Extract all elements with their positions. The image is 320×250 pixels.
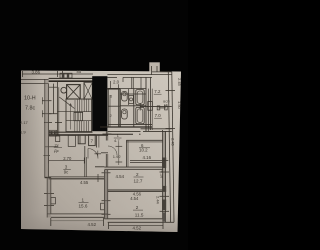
chute circle (61, 87, 67, 93)
stair mid landing lines (58, 111, 92, 113)
east rooms wall (double) (162, 130, 164, 219)
kitchen bottom wall / room1 top (49, 176, 105, 178)
door box on that wall (148, 102, 153, 111)
closet west wall (125, 140, 127, 167)
barbell symbol (159, 107, 167, 109)
bottom exterior wall right part (double) (104, 218, 163, 220)
kitchen east wall (84, 146, 86, 177)
entrance canopy box (60, 73, 72, 78)
lobby door boxes (56, 136, 60, 142)
corridor wall y146 (45, 146, 58, 148)
wc fixtures (122, 91, 128, 101)
svg-text:10-Н: 10-Н (24, 96, 36, 102)
hall north wall (107, 131, 140, 133)
stair middle hatched box (74, 112, 83, 120)
photo background (0, 0, 188, 250)
door arc apt2 hall (108, 146, 117, 155)
svg-text:1.92: 1.92 (113, 154, 122, 159)
stair diagonal cut (59, 97, 74, 109)
wall below 10.2 room (130, 159, 168, 161)
bottom dim line right (109, 225, 164, 227)
svg-text:7.2: 7.2 (154, 89, 161, 94)
crosses on east wall (160, 171, 170, 173)
stair treads lower flight (74, 121, 76, 132)
top wall right of shaft (double) (107, 74, 152, 76)
svg-text:1: 1 (82, 198, 85, 203)
wall between closet and room 12.7 (104, 166, 162, 168)
svg-text:4.52: 4.52 (88, 222, 97, 227)
crosses on shared wall (102, 200, 111, 202)
left exterior wall upper (double) (44, 79, 46, 177)
stair treads upper flight (74, 100, 76, 112)
electrical panel box (89, 135, 96, 146)
hallway top texts area small wall (108, 88, 147, 90)
lobby east wall (96, 135, 98, 148)
svg-text:1.9: 1.9 (20, 130, 26, 135)
svg-text:2.45: 2.45 (171, 138, 176, 147)
svg-text:КЛ: КЛ (164, 103, 168, 107)
top dimension line (22, 73, 93, 75)
svg-text:4.52: 4.52 (133, 226, 142, 231)
top-right notch (151, 66, 153, 75)
wall poche fills (104, 170, 107, 219)
stair direction line (70, 104, 72, 130)
vertical dim line at closet (118, 142, 120, 165)
svg-text:2.70: 2.70 (63, 156, 72, 161)
svg-text:4.54: 4.54 (116, 174, 125, 179)
wall tick crosses left wall (42, 100, 52, 102)
wall below 7.0 room (141, 128, 172, 130)
stair outline (66, 99, 92, 132)
room1 / room2 shared wall (103, 170, 105, 219)
right exterior wall (double) (168, 72, 170, 222)
bottom exterior wall left part (double) (47, 213, 108, 215)
left exterior wall lower (double) (46, 178, 48, 218)
svg-text:2: 2 (136, 172, 139, 177)
wall between 7.2 and 7.0 rooms (140, 106, 172, 108)
svg-text:2.44: 2.44 (156, 196, 161, 205)
svg-text:2.0: 2.0 (113, 79, 120, 84)
stair west tick (55, 122, 62, 124)
svg-text:Дс: Дс (54, 148, 59, 153)
svg-text:7: 7 (91, 139, 94, 144)
stair block top exterior wall (thick) (49, 77, 93, 79)
bottom dim line left (51, 220, 104, 222)
kitchen door arc (88, 149, 98, 159)
paper sheet (21, 71, 181, 233)
dark door rects on east wall (162, 158, 166, 169)
svg-text:2: 2 (136, 205, 139, 210)
top-left exterior wall (double) (21, 78, 49, 80)
svg-text:2.17: 2.17 (20, 120, 29, 125)
svg-text:85: 85 (77, 69, 82, 74)
crosses on right wall (166, 90, 176, 92)
closet top wall (126, 139, 162, 141)
svg-text:2х: 2х (55, 142, 59, 147)
bath tubs (136, 90, 144, 105)
small shaft next to elevator (84, 83, 92, 100)
paper tab top (149, 62, 160, 72)
svg-text:2.45: 2.45 (177, 78, 182, 87)
svg-text:9с: 9с (64, 170, 68, 175)
svg-text:10.2: 10.2 (139, 148, 148, 153)
svg-text:12.7: 12.7 (134, 179, 143, 184)
svg-text:4.55: 4.55 (80, 180, 89, 185)
stair block bottom wall (thick) (49, 131, 93, 133)
svg-text:4.16: 4.16 (160, 171, 165, 180)
duct box (50, 130, 57, 136)
bathroom cluster (107, 89, 109, 127)
stair block west wall (57, 81, 59, 135)
svg-text:4.7: 4.7 (114, 138, 120, 143)
misc hall lines top (110, 81, 112, 89)
svg-text:7.8с: 7.8с (25, 106, 35, 112)
paper bottom shadow (21, 213, 178, 232)
door box on left wall (51, 198, 56, 204)
svg-text:15.6: 15.6 (79, 204, 88, 209)
svg-text:4.54: 4.54 (130, 196, 139, 201)
black shaft rectangle (92, 76, 107, 131)
cluster bottom wall (108, 123, 152, 125)
shaft column left of stairs (53, 84, 55, 114)
paper left shade (21, 71, 42, 230)
svg-text:4.16: 4.16 (143, 155, 152, 160)
elevator east wall (83, 81, 85, 100)
svg-text:7.0: 7.0 (155, 113, 162, 118)
wall between 12.7 and 11.5 rooms (108, 189, 163, 191)
right column rooms west wall (150, 77, 152, 130)
svg-text:11.5: 11.5 (135, 213, 144, 218)
door box on shared wall (101, 203, 105, 210)
corridor west wall below shaft (105, 131, 107, 141)
svg-text:1.50: 1.50 (177, 101, 182, 110)
svg-text:3.86: 3.86 (32, 70, 41, 75)
elevator box with X (67, 85, 81, 99)
left wall jog (45, 177, 51, 179)
